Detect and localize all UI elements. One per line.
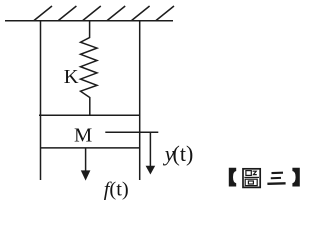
glyph 三 [267, 173, 285, 184]
svg-text:f(t): f(t) [104, 179, 129, 201]
svg-text:M: M [74, 125, 92, 147]
arrow y(t) head [146, 166, 156, 175]
ceiling (fixed support) [5, 20, 173, 22]
right wall (guide rail) [139, 21, 141, 180]
svg-text:K: K [64, 66, 79, 88]
mass M box top edge [39, 114, 140, 116]
glyph 圖 [243, 169, 260, 188]
bracket 【 [229, 168, 236, 187]
svg-text:(t): (t) [173, 141, 194, 166]
mass M box bottom edge [40, 147, 140, 149]
hatch marks on ceiling [34, 6, 174, 21]
figure caption 【圖三】 drawn as paths (CJK not in Liberation) [229, 168, 300, 188]
arrow y(t) shaft [149, 132, 151, 167]
pointer line from M to y(t) arrow [105, 131, 158, 133]
arrow f(t) shaft [85, 148, 87, 172]
spring K [81, 21, 98, 115]
left wall (guide rail) [40, 21, 42, 180]
arrow f(t) head [81, 170, 91, 180]
bracket 】 [292, 168, 299, 187]
